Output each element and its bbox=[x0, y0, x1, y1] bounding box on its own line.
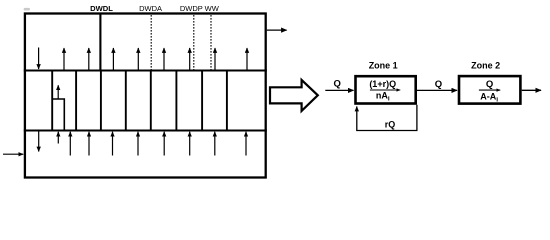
flow line Q into Zone 1 bbox=[325, 89, 353, 91]
bottom up arrow 1 bbox=[69, 132, 71, 156]
top aeration up arrow 2 bbox=[88, 48, 90, 70]
svg-text:(1+r)Q: (1+r)Q bbox=[369, 79, 396, 89]
compartment wall 4 bbox=[125, 71, 127, 131]
effluent arrow out of Zone 2 bbox=[522, 89, 541, 91]
bottom up arrow 2 bbox=[88, 132, 90, 156]
compartment wall 3 bbox=[100, 71, 102, 131]
recycle bottom line bbox=[356, 130, 417, 132]
bottom up arrow 7 bbox=[214, 132, 216, 156]
bottom up arrow 6 bbox=[189, 132, 191, 156]
top aeration up arrow 6 bbox=[189, 48, 191, 70]
top aeration up arrow 8 bbox=[246, 48, 248, 70]
tank outer wall bbox=[25, 14, 266, 178]
svg-text:DWDL: DWDL bbox=[90, 4, 113, 13]
bottom up arrow 8 bbox=[245, 132, 247, 156]
svg-text:Zone 1: Zone 1 bbox=[369, 60, 398, 70]
svg-text:DWDA: DWDA bbox=[139, 4, 162, 13]
compartment wall 7 bbox=[201, 71, 203, 131]
recycle riser with up arrow bbox=[356, 107, 358, 131]
bottom up arrow 3 bbox=[112, 132, 114, 156]
svg-text:rQ: rQ bbox=[385, 119, 396, 129]
top aeration up arrow 7 bbox=[214, 48, 216, 70]
big block arrow bbox=[270, 80, 318, 111]
bottom up arrow 5 bbox=[163, 132, 165, 156]
top aeration up arrow 3 bbox=[112, 48, 114, 70]
svg-text:Q: Q bbox=[334, 78, 341, 89]
WW dashed section line bbox=[210, 15, 212, 70]
Zone 2 box bbox=[459, 76, 520, 104]
recycle right drop line bbox=[416, 105, 418, 131]
DWDP dashed section line bbox=[193, 15, 195, 70]
feed well box bbox=[52, 99, 64, 131]
DWDL solid section wall bbox=[99, 14, 101, 71]
bottom up arrow 4 bbox=[137, 132, 139, 156]
feed well up arrow bbox=[57, 85, 59, 98]
svg-text:WW: WW bbox=[205, 4, 220, 13]
Zone 2 underline arrow bbox=[479, 89, 500, 91]
compartment wall 8 bbox=[226, 71, 228, 131]
bottom down arrow bbox=[38, 131, 40, 152]
svg-text:A-Ai: A-Ai bbox=[480, 92, 498, 104]
top aeration up arrow 1 bbox=[63, 48, 65, 70]
svg-text:Q: Q bbox=[435, 79, 442, 90]
compartment wall 2 bbox=[75, 71, 77, 131]
Zone 1 box bbox=[356, 76, 416, 103]
flow line Q Zone 1 to Zone 2 bbox=[417, 89, 457, 91]
bottom deck divider line bbox=[24, 129, 267, 131]
Zone 1 underline arrow bbox=[370, 89, 400, 91]
bottom short up arrow under feed well bbox=[57, 132, 59, 144]
top deck divider line bbox=[24, 69, 267, 71]
top aeration up arrow 5 bbox=[163, 48, 165, 70]
faint mark above tank corner bbox=[24, 8, 30, 11]
compartment wall 5 bbox=[150, 71, 152, 131]
svg-text:nAi: nAi bbox=[376, 91, 390, 103]
effluent arrow out of tank bbox=[267, 29, 287, 31]
svg-text:Zone 2: Zone 2 bbox=[471, 61, 500, 71]
compartment wall 6 bbox=[175, 71, 177, 131]
top aeration up arrow 4 bbox=[137, 48, 139, 70]
compartment wall 1 bbox=[51, 71, 53, 131]
DWDA dashed section line bbox=[150, 15, 152, 70]
top aeration down arrow bbox=[38, 48, 40, 70]
influent arrow into tank bbox=[3, 153, 23, 155]
svg-text:Q: Q bbox=[486, 79, 493, 90]
svg-text:DWDP: DWDP bbox=[180, 4, 203, 13]
